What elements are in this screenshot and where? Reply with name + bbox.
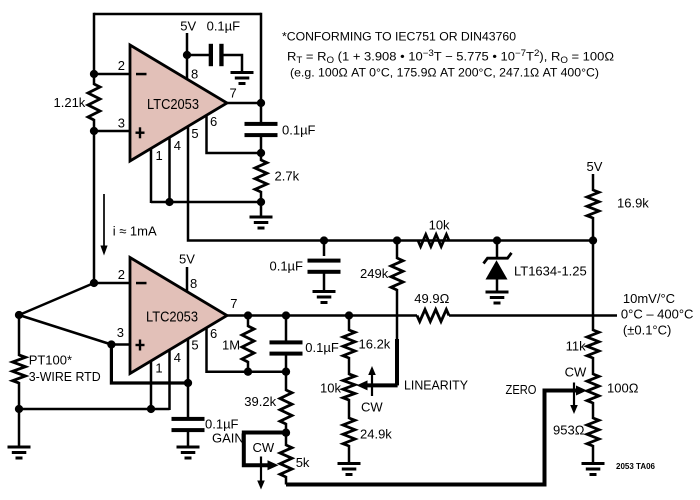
node R2 ground junction — [257, 198, 265, 206]
wire bypass cap left lead — [187, 54, 209, 57]
U2 minus input sign — [136, 282, 147, 285]
node R5 rail junction — [589, 236, 597, 244]
svg-text:8: 8 — [190, 276, 197, 291]
zero wiper link — [286, 391, 578, 485]
svg-text:0.1µF: 0.1µF — [305, 340, 339, 355]
svg-text:5k: 5k — [296, 455, 310, 470]
svg-text:5V: 5V — [587, 159, 603, 174]
wire R2 to ground — [260, 191, 263, 216]
svg-text:(e.g. 100Ω AT 0°C, 175.9Ω AT 2: (e.g. 100Ω AT 0°C, 175.9Ω AT 200°C, 247.… — [290, 66, 599, 80]
svg-text:10mV/°C: 10mV/°C — [623, 291, 675, 306]
U2 plus input sign — [136, 344, 145, 346]
ground PT100 — [8, 446, 31, 449]
node R3 top junction — [393, 236, 401, 244]
wire D1 cathode lead — [496, 241, 499, 259]
note line 2 equation — [287, 48, 614, 65]
svg-text:16.9k: 16.9k — [617, 196, 649, 211]
wire U1 pins 1-4 return — [151, 201, 261, 204]
svg-text:5: 5 — [191, 338, 198, 353]
svg-text:3: 3 — [117, 325, 124, 340]
node 1M top junction — [244, 311, 252, 319]
svg-text:1: 1 — [156, 148, 163, 163]
svg-text:LT1634-1.25: LT1634-1.25 — [514, 263, 587, 278]
wire 100 pot to 953 — [592, 402, 595, 419]
node PT100 bottom junction — [15, 405, 23, 413]
wire 16.2k to 10k pot — [348, 357, 351, 375]
resistor R12 24.9k body — [343, 418, 355, 446]
resistor R2 2.7k body — [255, 160, 267, 192]
node U1 pin6 junction — [257, 149, 265, 157]
svg-text:LTC2053: LTC2053 — [147, 97, 199, 113]
node linearity chain junction — [345, 311, 353, 319]
resistor R10 16.2k body — [343, 330, 355, 358]
wire RTD lead A diagonal — [19, 283, 94, 315]
ground bypass cap — [231, 71, 254, 74]
node RTD top junction — [15, 311, 23, 319]
svg-text:ZERO: ZERO — [506, 382, 537, 397]
wire R3 top lead — [396, 241, 399, 260]
node U1 pin2 junction — [90, 70, 98, 78]
wire U2 pin 4 — [168, 350, 171, 410]
svg-text:249k: 249k — [360, 266, 389, 281]
resistor R4 10k body — [418, 235, 449, 247]
svg-text:LTC2053: LTC2053 — [146, 309, 198, 325]
svg-text:11k: 11k — [566, 339, 586, 354]
zener D1 LT1634-1.25 symbol — [484, 253, 512, 264]
svg-text:39.2k: 39.2k — [244, 394, 276, 409]
wire 39.2k top lead — [285, 372, 288, 391]
zero CW direction arrow — [573, 383, 575, 407]
svg-text:2: 2 — [118, 58, 125, 73]
svg-text:PT100*: PT100* — [29, 352, 72, 367]
svg-text:8: 8 — [191, 67, 198, 82]
wire 10k pot to 24.9k — [348, 399, 351, 419]
wire RTD return to U2 pins 1-4 — [19, 408, 170, 411]
wire U1 pin 2 — [94, 73, 130, 76]
svg-text:4: 4 — [174, 350, 181, 365]
wire U2 pin3 to pin5 thick link — [111, 345, 188, 384]
wire output rail right — [449, 314, 617, 317]
wire left rail lower segment — [93, 119, 96, 283]
gain CW direction arrow — [260, 457, 262, 482]
wire feedback top (U1 output to pin 2 loop) — [94, 13, 261, 16]
wire pin6 node to cap node — [248, 370, 286, 373]
resistor R9 49.9Ω body — [417, 310, 449, 322]
wire 1M top lead — [247, 316, 250, 328]
svg-text:10k: 10k — [429, 218, 450, 233]
wire U1 pin 3 — [94, 130, 130, 133]
svg-text:1M: 1M — [222, 338, 240, 353]
svg-text:3: 3 — [118, 116, 125, 131]
node U2 pin5 junction — [184, 379, 192, 387]
wire PT100 bottom lead — [18, 382, 21, 446]
svg-text:1: 1 — [155, 361, 162, 376]
resistor R1 1.21k body — [88, 84, 100, 120]
wire D1 anode lead — [496, 278, 499, 291]
node C5 bottom junction — [282, 368, 290, 376]
wire C4 to ground — [187, 430, 190, 446]
capacitor C1 0.1µF bypass plates — [209, 44, 213, 66]
node U1 pin8 bypass junction — [183, 51, 191, 59]
capacitor C2 0.1µF plates — [245, 122, 278, 126]
svg-text:LINEARITY: LINEARITY — [404, 378, 468, 393]
node 1M bottom junction — [244, 368, 252, 376]
node U2 pin2 junction — [90, 279, 98, 287]
U1 plus input sign — [136, 132, 145, 134]
wire U2 output rail — [227, 314, 417, 317]
wire C5 bottom lead — [285, 354, 288, 372]
wire right drop from feedback — [260, 13, 263, 122]
wire U1 pin 5 drop — [188, 126, 593, 241]
svg-text:49.9Ω: 49.9Ω — [414, 291, 449, 306]
capacitor C5 0.1µF plates — [270, 340, 303, 344]
node U1 pin3 junction — [90, 127, 98, 135]
ground linearity chain — [338, 462, 361, 465]
linearity wiper link — [365, 383, 398, 387]
svg-text:0.1µF: 0.1µF — [269, 259, 303, 274]
node U1 output junction — [257, 99, 265, 107]
svg-text:100Ω: 100Ω — [607, 381, 639, 396]
svg-text:953Ω: 953Ω — [553, 422, 585, 437]
resistor R6 1M body — [242, 326, 254, 362]
node gain wiper junction — [282, 429, 290, 437]
linearity wiper arrowhead — [357, 380, 368, 390]
svg-text:i ≈ 1mA: i ≈ 1mA — [113, 223, 157, 238]
wire U2 pin 6 — [207, 328, 249, 372]
wire U1 pin 8 supply — [186, 33, 189, 80]
svg-text:4: 4 — [174, 138, 181, 153]
resistor R15 953Ω body — [587, 418, 599, 446]
gain wiper arrowhead — [268, 460, 279, 470]
wire 11k to 100 pot — [592, 357, 595, 375]
node U2 pin3 junction — [107, 340, 115, 348]
potentiometer R8 5k body — [280, 445, 292, 477]
wire U1 pin 6 — [207, 116, 262, 154]
wire 1M bottom lead — [247, 361, 250, 372]
svg-text:0°C – 400°C: 0°C – 400°C — [621, 307, 694, 322]
svg-text:6: 6 — [210, 326, 217, 341]
wire 16.9k to rail node — [592, 217, 595, 241]
wire C2 to R2 — [260, 135, 263, 161]
wire U2 pin 5 drop — [187, 339, 190, 417]
capacitor C3 0.1µF plates — [308, 259, 341, 263]
annotation current arrow — [103, 194, 105, 247]
svg-text:0.1µF: 0.1µF — [205, 416, 239, 431]
op-amp U1 LTC2053 body — [130, 45, 227, 161]
node U2 pin1 junction — [147, 405, 155, 413]
wire 39.2k bottom lead — [285, 423, 288, 446]
wire 24.9k to ground — [348, 445, 351, 462]
wire C3 top lead — [323, 241, 326, 257]
wire 953 to ground — [592, 445, 595, 462]
svg-text:7: 7 — [230, 296, 237, 311]
wire 5k bottom lead — [285, 476, 288, 485]
node mid bypass cap junction — [320, 236, 328, 244]
ground D1 — [486, 291, 509, 294]
svg-text:10k: 10k — [320, 381, 341, 396]
resistor PT100 body — [13, 355, 26, 383]
svg-text:CW: CW — [253, 440, 275, 455]
svg-text:GAIN: GAIN — [212, 430, 244, 445]
svg-text:2053 TA06: 2053 TA06 — [616, 462, 656, 471]
wire left rail upper segment — [93, 13, 96, 85]
wire zero divider drop — [592, 241, 595, 332]
zero wiper arrowhead — [576, 386, 587, 396]
wire bypass cap right lead — [224, 55, 243, 73]
wire RTD lead B diagonal — [19, 315, 111, 345]
svg-text:*CONFORMING TO IEC751 OR DIN43: *CONFORMING TO IEC751 OR DIN43760 — [282, 29, 516, 43]
resistor R5 16.9k body — [587, 190, 599, 218]
wire 16.2k top lead — [348, 316, 351, 332]
svg-text:CW: CW — [565, 365, 587, 380]
potentiometer R14 100Ω body — [587, 374, 599, 403]
resistor R13 11k body — [587, 330, 599, 358]
svg-text:2: 2 — [118, 267, 125, 282]
resistor R3 249k body — [391, 258, 403, 290]
wire C3 to ground — [323, 272, 326, 290]
linearity CW direction arrow — [371, 374, 373, 396]
wire U2 pin 3 — [111, 343, 130, 346]
wire PT100 top lead — [18, 315, 21, 356]
node output cap junction — [282, 311, 290, 319]
wire U2 pin 1 — [150, 362, 153, 410]
svg-text:(±0.1°C): (±0.1°C) — [623, 323, 671, 338]
svg-text:16.2k: 16.2k — [359, 337, 391, 352]
U1 minus input sign — [136, 73, 147, 76]
svg-text:0.1µF: 0.1µF — [207, 19, 241, 34]
wire gain wiper link — [244, 433, 286, 466]
svg-text:3-WIRE RTD: 3-WIRE RTD — [29, 369, 101, 384]
capacitor C4 0.1µF plates — [172, 417, 205, 421]
ground R2 — [250, 216, 273, 219]
svg-text:6: 6 — [210, 114, 217, 129]
svg-text:5V: 5V — [180, 19, 196, 34]
resistor R7 39.2k body — [280, 390, 292, 424]
ground C3 — [313, 290, 336, 293]
wire 16.9k top lead — [592, 174, 595, 191]
ground C4 — [177, 446, 200, 449]
wire U1 output — [227, 102, 261, 105]
potentiometer R11 10k body — [343, 374, 355, 400]
svg-text:CW: CW — [361, 399, 383, 414]
wire U2 pin 8 supply — [186, 267, 189, 293]
svg-text:5: 5 — [191, 126, 198, 141]
svg-text:2.7k: 2.7k — [275, 169, 300, 184]
wire C5 top lead — [285, 316, 288, 343]
wire R3 bottom to wiper — [396, 289, 399, 340]
svg-text:7: 7 — [230, 86, 237, 101]
wire U1 pin 1 — [150, 148, 153, 203]
node U1 pin4 junction — [165, 198, 173, 206]
svg-text:5V: 5V — [179, 252, 195, 267]
svg-text:0.1µF: 0.1µF — [282, 123, 316, 138]
svg-text:24.9k: 24.9k — [360, 427, 392, 442]
wire U1 pin 4 — [168, 138, 171, 203]
op-amp U2 LTC2053 body — [130, 258, 227, 374]
node D1 junction — [493, 236, 501, 244]
svg-text:1.21k: 1.21k — [54, 95, 86, 110]
ground zero chain — [582, 462, 605, 465]
wire U2 pin 2 — [94, 282, 130, 285]
